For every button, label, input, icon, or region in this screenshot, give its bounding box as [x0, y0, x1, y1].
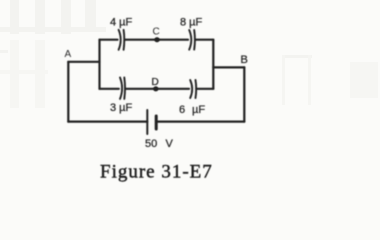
svg-text:50: 50	[145, 138, 157, 150]
svg-text:µF: µF	[192, 104, 205, 116]
svg-text:D: D	[152, 77, 159, 88]
svg-text:C: C	[153, 27, 160, 38]
svg-text:Figure 31-E7: Figure 31-E7	[100, 162, 213, 183]
svg-text:8 µF: 8 µF	[180, 16, 203, 28]
svg-text:4 µF: 4 µF	[110, 16, 133, 28]
svg-text:V: V	[166, 138, 174, 150]
svg-text:3 µF: 3 µF	[110, 102, 133, 114]
svg-text:A: A	[65, 49, 72, 60]
svg-text:6: 6	[179, 104, 185, 116]
svg-text:B: B	[241, 54, 248, 66]
